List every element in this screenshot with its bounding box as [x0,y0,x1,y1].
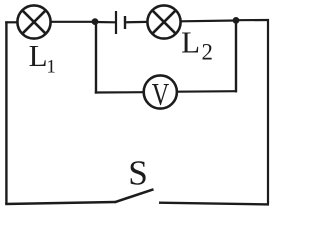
switch S lever [115,189,154,202]
voltmeter U1 [144,75,177,113]
lamp L2 [147,5,180,38]
wire: node B to top-right corner [236,19,269,21]
wire: bottom right horizontal from switch [159,203,269,205]
wire: bottom left horizontal to switch [5,202,115,204]
battery B1 negative plate (short) [124,16,126,29]
svg-text:V: V [152,78,169,113]
wire: lamp L2 to node B [181,19,236,22]
wire: node A down to voltmeter branch [95,22,97,94]
label L2 [181,25,213,65]
svg-text:1: 1 [46,57,56,78]
node B (junction dot) [233,17,240,24]
wire: voltmeter branch left horizontal [95,91,144,94]
svg-text:L: L [181,25,200,60]
wire: voltmeter branch right horizontal [177,90,237,93]
battery B1 positive plate (long) [115,11,117,34]
label S [128,154,148,193]
lamp L1 [17,5,50,38]
node A (junction dot) [92,18,99,25]
wire: right vertical side [267,19,269,205]
wire: lamp L1 to node A [51,21,95,23]
wire: top-left horizontal to lamp L1 [5,21,17,23]
svg-text:S: S [128,154,148,193]
svg-text:L: L [29,38,48,73]
wire: left vertical side [5,21,7,204]
wire: node A to battery [95,21,115,23]
label L1 [29,38,56,78]
wire: node B down to voltmeter branch [235,20,237,92]
svg-text:2: 2 [202,40,213,65]
wire: battery to lamp L2 [126,21,148,24]
